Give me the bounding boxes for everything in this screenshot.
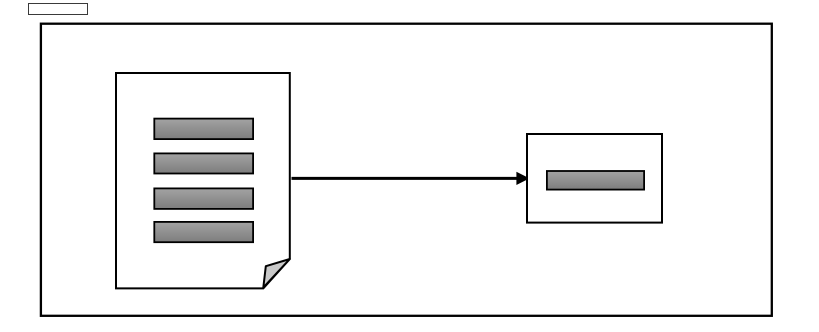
- outer frame: [41, 24, 772, 316]
- text bar 4: [154, 222, 253, 242]
- output box: [527, 134, 662, 223]
- small rectangle (top-left): [29, 4, 88, 15]
- text bar 2: [154, 153, 253, 173]
- document page with folded corner: [116, 73, 290, 288]
- arrow head: [517, 173, 529, 185]
- arrow shaft: [292, 177, 519, 180]
- folded corner flap: [263, 259, 290, 288]
- text bar 3: [154, 188, 253, 209]
- text bar 1: [154, 119, 253, 140]
- output text bar: [547, 171, 644, 190]
